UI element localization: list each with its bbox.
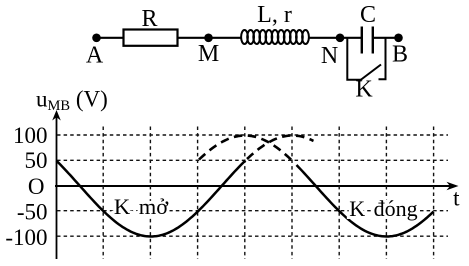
svg-text:t: t — [453, 186, 460, 211]
y-axis — [56, 114, 58, 259]
svg-text:N: N — [321, 43, 338, 69]
svg-text:K: K — [355, 77, 373, 103]
vertical gridlines — [103, 127, 433, 260]
svg-text:B: B — [392, 42, 408, 68]
switch blade — [361, 65, 382, 81]
wire capacitor to B — [373, 37, 399, 39]
wire resistor to coil — [178, 37, 243, 39]
curve K mo solid — [57, 161, 246, 237]
svg-text:C: C — [360, 2, 376, 28]
curve K dong solid — [297, 165, 434, 237]
svg-text:-100: -100 — [5, 225, 47, 250]
svg-text:R: R — [141, 6, 157, 32]
wire A to resistor — [96, 37, 124, 39]
svg-text:50: 50 — [25, 148, 48, 173]
curve K dong dashed back-extension — [199, 136, 292, 161]
switch contact and right leg — [379, 38, 386, 80]
resistor R1 — [124, 30, 178, 46]
horizontal gridline +50 — [57, 159, 448, 161]
svg-text:M: M — [198, 41, 219, 67]
wire coil to capacitor — [309, 37, 362, 39]
inductor L,r — [241, 30, 248, 44]
svg-text:O: O — [28, 174, 45, 199]
svg-text:uMB (V): uMB (V) — [36, 87, 108, 115]
svg-text:A: A — [86, 43, 104, 69]
svg-text:L, r: L, r — [257, 2, 292, 28]
node N — [336, 34, 345, 43]
svg-text:-50: -50 — [17, 200, 48, 225]
node B — [394, 34, 403, 43]
curve K mo dashed continuation — [247, 136, 314, 160]
horizontal gridline +100 — [57, 134, 448, 136]
capacitor C — [361, 27, 363, 54]
horizontal gridline -50 — [57, 210, 448, 212]
svg-text:100: 100 — [13, 123, 48, 148]
x-axis — [55, 185, 453, 187]
horizontal gridline -100 — [57, 235, 448, 237]
node A — [92, 34, 101, 43]
svg-text:K đóng: K đóng — [349, 196, 417, 221]
node M — [204, 34, 213, 43]
svg-text:K mở: K mở — [114, 194, 169, 219]
switch K branch left leg — [347, 38, 361, 80]
